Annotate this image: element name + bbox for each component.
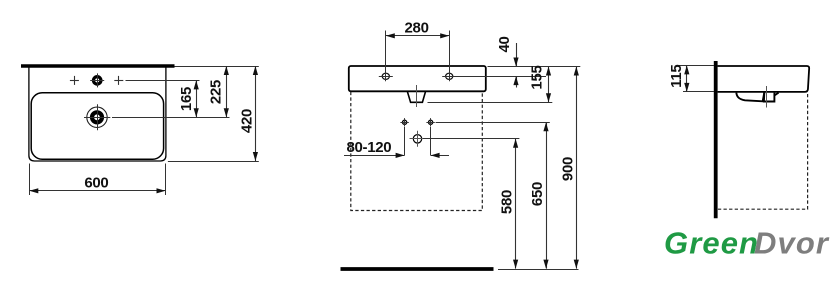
svg-text:650: 650: [529, 182, 546, 206]
dimension 40: [496, 36, 519, 87]
front view: waste outlet symbol: [410, 131, 426, 147]
top view: basin outer outline: [29, 67, 166, 161]
side view: bowl underside profile: [736, 93, 764, 102]
top view: left cross mark: [70, 76, 79, 85]
front view: basin body: [349, 66, 486, 91]
top view: drain extension line: [112, 117, 230, 119]
dimension 580: [499, 139, 519, 269]
svg-text:115: 115: [668, 65, 685, 88]
svg-text:40: 40: [496, 36, 513, 52]
top view: inner bowl outline: [31, 93, 163, 159]
top view: top extension line: [175, 66, 259, 68]
side view: drain boss: [764, 93, 779, 102]
front view: installation dashed box: [351, 92, 483, 211]
dimension 420: [238, 66, 258, 161]
front view: fixing holes extension line: [436, 122, 550, 124]
dimension 650: [529, 122, 549, 268]
top view: bottom extension line: [168, 161, 259, 163]
front view: left wall fixing hole: [400, 118, 408, 126]
svg-text:900: 900: [559, 157, 576, 181]
front view: top extension line: [488, 66, 581, 68]
top view: back shelf edge (thick line): [21, 64, 175, 67]
dimension 165: [178, 80, 199, 117]
side view: basin profile: [718, 66, 810, 92]
floor line (thick): [341, 267, 494, 271]
dimension 600: [29, 164, 165, 196]
dimension 80-120: [344, 127, 449, 158]
front view: left faucet hole: [379, 71, 393, 81]
svg-text:580: 580: [499, 190, 516, 214]
svg-text:420: 420: [238, 109, 255, 133]
top view: drain hole: [84, 104, 110, 130]
front view: drain trap: [407, 91, 425, 102]
side view: installation dashed outline: [718, 94, 808, 209]
side view: wall (thick line): [714, 61, 718, 218]
floor extension line (thin): [498, 269, 579, 271]
side view: drain centerline: [766, 86, 768, 108]
front view: right wall fixing hole: [426, 118, 434, 126]
svg-text:Green: Green: [664, 226, 759, 261]
dimension 225: [208, 66, 229, 117]
GreenDvor logo: [664, 226, 830, 261]
svg-text:280: 280: [405, 20, 429, 37]
front view: faucet extension line: [456, 76, 547, 78]
dimension 155: [529, 65, 552, 102]
front view: right faucet hole: [442, 71, 456, 81]
top view: faucet extension line: [126, 80, 200, 82]
top view: faucet hole: [90, 73, 104, 87]
svg-text:Dvor: Dvor: [754, 226, 830, 261]
front view: trap extension line: [428, 102, 553, 104]
front view: drain centerline: [416, 85, 418, 107]
dimension 115: [668, 65, 714, 92]
svg-text:80-120: 80-120: [346, 139, 391, 156]
dimension 280: [386, 20, 450, 72]
svg-text:155: 155: [529, 65, 546, 89]
top view: right cross mark: [114, 76, 123, 85]
dimension 900: [559, 67, 579, 269]
svg-text:225: 225: [208, 80, 225, 104]
svg-text:165: 165: [178, 87, 195, 111]
front view: waste outlet extension line: [423, 138, 519, 140]
svg-text:600: 600: [84, 174, 108, 191]
